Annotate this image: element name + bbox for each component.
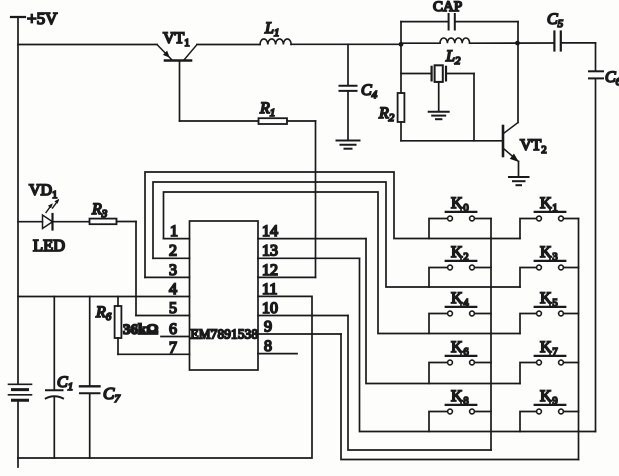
svg-text:8: 8: [264, 338, 272, 355]
svg-text:K3: K3: [540, 244, 558, 263]
svg-text:+5V: +5V: [27, 9, 58, 28]
svg-text:R2: R2: [378, 105, 395, 124]
svg-text:7: 7: [169, 339, 177, 356]
ground VT2 emitter: [509, 177, 529, 185]
switch K9: [520, 388, 579, 432]
ground under crystal: [429, 112, 449, 119]
svg-text:K6: K6: [451, 339, 469, 358]
svg-text:6: 6: [169, 321, 177, 338]
svg-text:K2: K2: [451, 244, 469, 263]
transistor VT1: [157, 30, 197, 61]
wire pin9 route to right key column: [341, 334, 579, 460]
wire pin2 route to row K2K3: [153, 182, 520, 287]
svg-text:VT2: VT2: [520, 137, 547, 156]
switch K4: [429, 290, 491, 334]
svg-text:L2: L2: [445, 48, 461, 67]
crystal B1: [401, 65, 474, 111]
node A junction dot: [399, 42, 404, 47]
ground under C4: [337, 141, 360, 149]
capacitor C6: [589, 69, 619, 88]
wire battery bottom rail: [17, 400, 19, 458]
switch K6: [429, 339, 491, 384]
wire left key column vertical: [490, 219, 492, 451]
wire VT2 emitter down: [518, 162, 520, 177]
svg-text:LED: LED: [33, 236, 65, 255]
pin 9: [258, 319, 341, 336]
svg-text:R1: R1: [259, 100, 275, 119]
svg-text:14: 14: [262, 223, 278, 240]
svg-text:13: 13: [262, 243, 278, 260]
wire crystal right down to base line: [473, 74, 475, 141]
resistor R1: [180, 100, 316, 124]
pin 7: [169, 339, 177, 356]
svg-text:K5: K5: [540, 290, 558, 309]
resistor R3: [53, 201, 137, 224]
switch K2: [429, 244, 491, 287]
wire pin10 route to left key column: [348, 316, 491, 451]
svg-text:K9: K9: [540, 388, 558, 407]
wire pin1 route to row K4K5: [164, 192, 521, 334]
switch K8: [429, 388, 491, 432]
LED VD1: [18, 182, 65, 255]
transistor VT2: [503, 123, 547, 163]
IC U1 EM7891538: [190, 221, 259, 370]
node B junction dot: [515, 41, 520, 46]
wire +5V line to pin4: [18, 296, 190, 298]
wire pin14 route to row K6K7: [366, 239, 520, 384]
svg-text:9: 9: [264, 319, 272, 336]
switch K7: [520, 339, 579, 384]
wire L1 to node A: [291, 43, 401, 45]
wire right key column vertical: [578, 219, 580, 460]
svg-text:5: 5: [169, 300, 177, 317]
switch K0: [429, 195, 491, 239]
wire node A down to crystal branch: [400, 44, 402, 93]
wire VT2 base line: [401, 140, 502, 142]
svg-text:EM7891538: EM7891538: [191, 327, 259, 342]
svg-text:L1: L1: [264, 20, 279, 39]
wire C5 to right corner: [562, 42, 596, 44]
wire L2 to C5: [470, 42, 554, 44]
pin 8: [258, 338, 297, 355]
pin 5: [169, 300, 177, 317]
capacitor C7: [80, 297, 120, 459]
node +5V terminal: [11, 9, 58, 28]
svg-text:C7: C7: [103, 384, 120, 405]
capacitor C1: [46, 297, 73, 459]
battery GB: [9, 384, 32, 400]
svg-text:2: 2: [169, 243, 177, 260]
wire pin13 route to row K8K9: [360, 258, 596, 431]
svg-text:R3: R3: [91, 201, 108, 220]
svg-text:C5: C5: [547, 11, 564, 30]
capacitor CAP top loop: [401, 0, 518, 44]
wire C6 down to keypad row K8K9: [595, 79, 597, 432]
wire ground rail bottom to pin11: [18, 296, 312, 458]
wire +5V top feed to VT1 emitter: [18, 44, 157, 46]
svg-text:3: 3: [169, 262, 177, 279]
svg-text:K8: K8: [451, 388, 469, 407]
svg-text:K7: K7: [540, 339, 558, 358]
wire R1 right down to pin12: [315, 121, 317, 277]
capacitor C5: [547, 11, 564, 51]
pin 3: [145, 262, 190, 279]
wire battery stub below rail: [17, 458, 19, 467]
svg-text:K0: K0: [451, 195, 469, 214]
svg-text:12: 12: [262, 262, 278, 279]
wire pin5 line: [136, 315, 190, 317]
switch K1: [520, 195, 579, 239]
wire VT1 collector to L1: [197, 44, 260, 46]
resistor R2: [378, 93, 404, 141]
svg-text:VD1: VD1: [29, 182, 57, 201]
wire R6 bottom to pin7: [118, 353, 190, 355]
svg-text:CAP: CAP: [433, 0, 462, 15]
svg-text:C1: C1: [57, 374, 73, 393]
pin 1: [164, 223, 190, 240]
resistor R6 36kOhm: [95, 297, 158, 355]
svg-text:C6: C6: [605, 69, 619, 88]
pin 11: [262, 281, 277, 298]
svg-text:K1: K1: [540, 195, 558, 214]
svg-text:1: 1: [170, 223, 178, 240]
switch K5: [520, 290, 579, 334]
wire R3 down to pin5: [135, 222, 137, 316]
wire +5V rail left vertical: [17, 17, 19, 384]
svg-text:36kΩ: 36kΩ: [123, 322, 158, 338]
pin 10: [258, 300, 348, 317]
capacitor C4: [340, 44, 378, 140]
pin 4: [169, 281, 177, 298]
wire VT1 base down: [179, 61, 181, 122]
pin 13: [258, 243, 360, 260]
pin 2: [153, 243, 190, 260]
inductor L2: [401, 38, 470, 67]
wire right vertical down to C6: [595, 43, 597, 71]
svg-text:VT1: VT1: [163, 30, 190, 49]
wire pin3 route to row K0K1: [145, 172, 520, 277]
svg-text:10: 10: [262, 300, 278, 317]
pin 6: [161, 321, 190, 338]
pin 14: [258, 223, 366, 240]
svg-text:K4: K4: [451, 290, 469, 309]
svg-text:4: 4: [169, 281, 177, 298]
switch K3: [520, 244, 579, 287]
pin 12: [258, 262, 316, 279]
inductor L1: [260, 20, 291, 45]
svg-text:11: 11: [262, 281, 277, 298]
svg-text:C4: C4: [361, 82, 378, 101]
svg-text:R6: R6: [95, 304, 112, 323]
wire VT2 collector up to node B: [517, 43, 519, 122]
